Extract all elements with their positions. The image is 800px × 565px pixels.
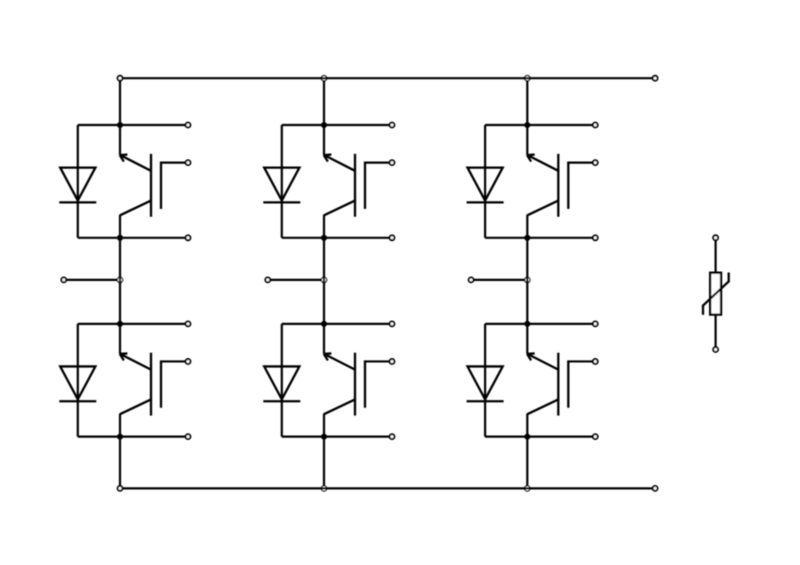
- terminal emitter aux lower W: [593, 434, 598, 439]
- terminal gate lower U: [186, 359, 191, 364]
- wire leg W upper emitter to phase node: [526, 238, 528, 280]
- node bottom rail leg V: [321, 486, 326, 491]
- wire diode branch bottom upper U: [78, 237, 120, 239]
- transistor Q3 IGBT upper V: [324, 125, 392, 238]
- junction collector upper V: [321, 122, 327, 128]
- terminal collector aux lower V: [390, 321, 395, 326]
- wire emitter aux lower W: [527, 436, 595, 438]
- terminal DC- left: [118, 486, 123, 491]
- transistor Q1 IGBT upper U: [120, 125, 188, 238]
- diode D6 freewheel lower W: [467, 366, 504, 401]
- thermistor R1 NTC: [703, 273, 729, 315]
- wire phase U output: [64, 279, 118, 281]
- wire leg W phase node to lower cell: [526, 280, 528, 324]
- wire collector aux upper U: [120, 124, 188, 126]
- wire leg V lower emitter to DC-: [323, 437, 325, 487]
- wire leg W lower emitter to DC-: [526, 437, 528, 487]
- terminal phase U output: [61, 277, 66, 282]
- wire diode branch top lower V: [282, 323, 324, 325]
- diode D5 freewheel upper W: [467, 168, 504, 203]
- wire emitter aux upper U: [120, 237, 188, 239]
- diode D3 freewheel upper V: [263, 168, 300, 203]
- wire phase V output: [268, 279, 322, 281]
- wire diode branch vertical lower W: [484, 324, 486, 437]
- wire NTC bottom lead: [714, 315, 716, 350]
- terminal collector aux lower U: [186, 321, 191, 326]
- wire phase W output: [471, 279, 525, 281]
- wire diode branch top upper U: [78, 124, 120, 126]
- terminal emitter aux lower U: [186, 434, 191, 439]
- wire leg V DC+ to upper cell: [323, 80, 325, 125]
- terminal gate lower V: [390, 359, 395, 364]
- wire collector aux lower U: [120, 323, 188, 325]
- wire collector aux upper W: [527, 124, 595, 126]
- terminal gate lower W: [593, 359, 598, 364]
- terminal emitter aux upper U: [186, 235, 191, 240]
- wire diode branch bottom upper V: [282, 237, 324, 239]
- junction emitter upper V: [321, 235, 327, 241]
- wire emitter aux lower U: [120, 436, 188, 438]
- terminal DC- right: [653, 486, 658, 491]
- terminal collector aux upper V: [390, 123, 395, 128]
- wire leg V upper emitter to phase node: [323, 238, 325, 280]
- wire leg V phase node to lower cell: [323, 280, 325, 324]
- terminal gate upper W: [593, 160, 598, 165]
- transistor Q5 IGBT upper W: [527, 125, 595, 238]
- transistor Q4 IGBT lower V: [324, 324, 392, 437]
- wire diode branch top upper V: [282, 124, 324, 126]
- junction emitter lower V: [321, 434, 327, 440]
- terminal DC+ left: [118, 76, 123, 81]
- diode D2 freewheel lower U: [59, 366, 96, 401]
- wire leg U upper emitter to phase node: [119, 238, 121, 280]
- wire diode branch bottom upper W: [485, 237, 527, 239]
- node phase W: [525, 277, 530, 282]
- wire diode branch top lower U: [78, 323, 120, 325]
- node top rail leg W: [525, 76, 530, 81]
- wire collector aux lower W: [527, 323, 595, 325]
- junction collector lower W: [524, 321, 530, 327]
- terminal phase W output: [469, 277, 474, 282]
- junction emitter upper U: [117, 235, 123, 241]
- wire top DC+ rail: [120, 77, 655, 79]
- wire NTC top lead: [714, 238, 716, 273]
- wire emitter aux upper V: [324, 237, 392, 239]
- wire collector aux lower V: [324, 323, 392, 325]
- wire diode branch bottom lower W: [485, 436, 527, 438]
- terminal NTC top: [713, 235, 718, 240]
- wire leg U phase node to lower cell: [119, 280, 121, 324]
- diode D1 freewheel upper U: [59, 168, 96, 203]
- junction emitter lower W: [524, 434, 530, 440]
- terminal NTC bottom: [713, 347, 718, 352]
- wire collector aux upper V: [324, 124, 392, 126]
- diode D4 freewheel lower V: [263, 366, 300, 401]
- wire leg U DC+ to upper cell: [119, 78, 121, 125]
- terminal collector aux lower W: [593, 321, 598, 326]
- terminal emitter aux upper W: [593, 235, 598, 240]
- wire diode branch vertical upper U: [77, 125, 79, 238]
- transistor Q6 IGBT lower W: [527, 324, 595, 437]
- wire emitter aux upper W: [527, 237, 595, 239]
- terminal collector aux upper W: [593, 123, 598, 128]
- wire leg U lower emitter to DC-: [119, 437, 121, 489]
- wire diode branch vertical lower V: [281, 324, 283, 437]
- transistor Q2 IGBT lower U: [120, 324, 188, 437]
- wire bottom DC- rail: [120, 487, 655, 489]
- terminal gate upper V: [390, 160, 395, 165]
- junction collector lower V: [321, 321, 327, 327]
- wire emitter aux lower V: [324, 436, 392, 438]
- wire diode branch vertical lower U: [77, 324, 79, 437]
- terminal emitter aux upper V: [390, 235, 395, 240]
- junction emitter upper W: [524, 235, 530, 241]
- wire diode branch top upper W: [485, 124, 527, 126]
- terminal gate upper U: [186, 160, 191, 165]
- wire diode branch bottom lower V: [282, 436, 324, 438]
- terminal phase V output: [265, 277, 270, 282]
- wire diode branch bottom lower U: [78, 436, 120, 438]
- terminal emitter aux lower V: [390, 434, 395, 439]
- node top rail leg V: [321, 76, 326, 81]
- wire diode branch vertical upper W: [484, 125, 486, 238]
- terminal collector aux upper U: [186, 123, 191, 128]
- wire leg W DC+ to upper cell: [526, 80, 528, 125]
- node phase U: [117, 277, 122, 282]
- junction collector lower U: [117, 321, 123, 327]
- junction collector upper U: [117, 122, 123, 128]
- wire diode branch top lower W: [485, 323, 527, 325]
- terminal DC+ right: [653, 76, 658, 81]
- wire diode branch vertical upper V: [281, 125, 283, 238]
- junction emitter lower U: [117, 434, 123, 440]
- node phase V: [321, 277, 326, 282]
- node bottom rail leg W: [525, 486, 530, 491]
- junction collector upper W: [524, 122, 530, 128]
